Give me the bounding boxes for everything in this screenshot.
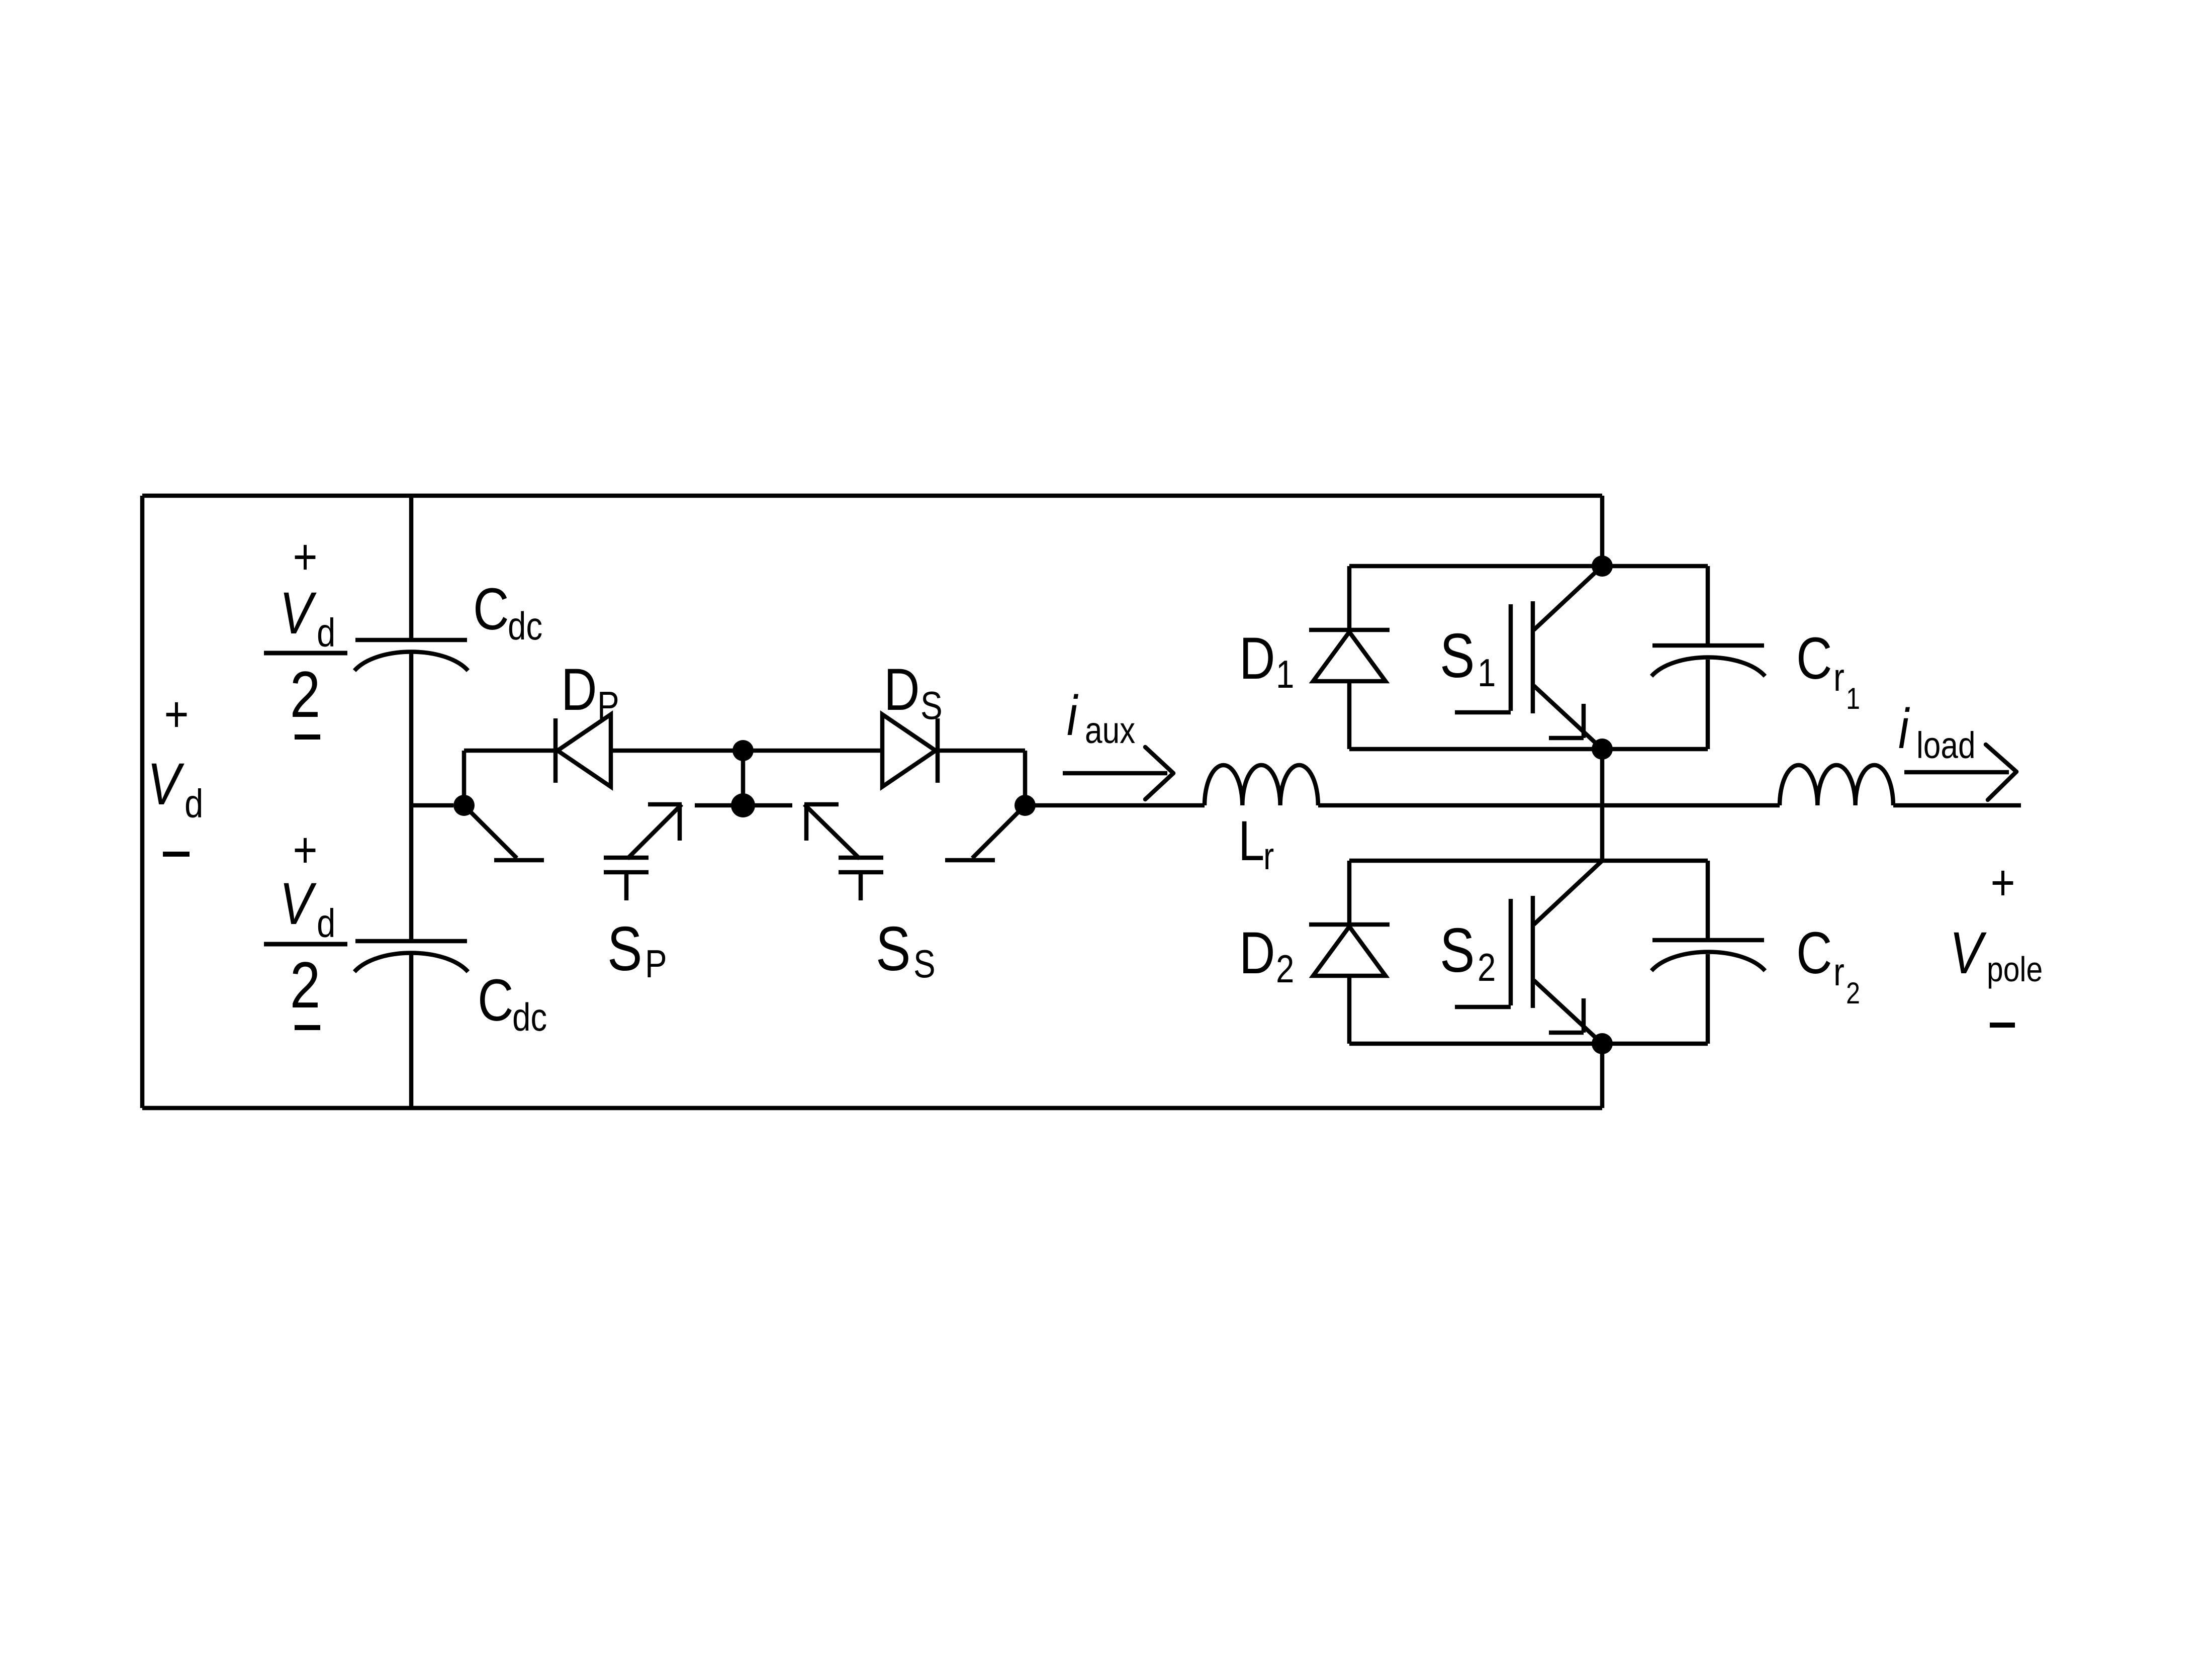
transistor S2 (collector)	[1534, 861, 1602, 925]
capacitor Cr1 (lower lead / box right edge)	[1706, 660, 1710, 749]
switch Ss (lower terminal stub)	[859, 872, 863, 900]
svg-text:C: C	[478, 967, 514, 1034]
svg-text:S: S	[913, 943, 936, 986]
svg-text:D: D	[884, 657, 920, 723]
node C (aux output junction)	[1015, 795, 1036, 816]
wire left vertical (Vd source branch)	[140, 496, 145, 1108]
svg-text:V: V	[280, 871, 317, 937]
svg-text:+: +	[164, 686, 189, 743]
svg-text:S: S	[920, 684, 943, 728]
wire top DC rail	[142, 494, 1602, 498]
label - (lower Vd/2)	[295, 1025, 320, 1030]
wire node B to node B'	[741, 751, 746, 805]
diode D2 (upper lead / box left edge)	[1347, 861, 1352, 925]
switch Sp (lower terminal stub)	[624, 872, 629, 900]
fraction bar (upper Vd/2)	[264, 651, 347, 656]
capacitor Cr2 (upper lead / box right edge)	[1706, 861, 1710, 940]
svg-text:2: 2	[1276, 948, 1294, 991]
node A (dc midpoint junction)	[453, 795, 475, 816]
inductor Lr	[1205, 765, 1318, 805]
diode Ds (cathode bar)	[936, 718, 940, 783]
svg-text:r: r	[1263, 835, 1274, 878]
svg-text:V: V	[1950, 920, 1987, 986]
diode D1 (cathode bar)	[1309, 628, 1390, 632]
svg-text:load: load	[1916, 725, 1976, 766]
capacitor Cr1	[1652, 643, 1764, 648]
capacitor Cdc (bottom)	[355, 939, 467, 944]
node: top rail / S1 collector junction	[1592, 556, 1613, 577]
svg-text:D: D	[561, 657, 597, 723]
transistor S2 (body bar)	[1531, 896, 1535, 1008]
svg-text:dc: dc	[512, 996, 547, 1040]
svg-text:+: +	[1990, 854, 2015, 911]
wire right vertical from top rail to S1 cell	[1600, 496, 1605, 566]
switch Ss (arrow blade)	[804, 804, 860, 859]
svg-text:dc: dc	[508, 605, 542, 649]
switch Ss (fixed contact bar)	[945, 858, 995, 863]
wire dc midpoint to node A	[411, 803, 453, 808]
label - (Vpole)	[1990, 1023, 2015, 1028]
transistor S2 (emitter arrow barbs)	[1582, 998, 1586, 1033]
fraction bar (lower Vd/2)	[264, 942, 347, 947]
capacitor Cr2 (lower lead / box right edge)	[1706, 954, 1710, 1044]
svg-text:i: i	[1898, 697, 1910, 760]
wire S1 emitter down through pole to S2 collector	[1600, 749, 1605, 861]
snubber cell box for S1 (bottom edge)	[1349, 747, 1708, 752]
svg-text:i: i	[1067, 684, 1079, 747]
wire right vertical from S2 cell to bottom rail	[1600, 1044, 1605, 1108]
switch Ss (arrowhead barbs)	[804, 802, 839, 807]
diode D1 (triangle, pointing up)	[1313, 632, 1386, 681]
capacitor Cr1 (upper lead / box right edge)	[1706, 566, 1710, 646]
wire node A up to diode row	[462, 751, 467, 805]
svg-text:d: d	[317, 610, 335, 655]
svg-text:2: 2	[1846, 976, 1860, 1010]
svg-text:2: 2	[290, 658, 321, 731]
label - (Vd source)	[163, 852, 190, 857]
wire node A to diode Dp	[464, 749, 556, 753]
switch Ss (lower contact bars)	[839, 856, 883, 860]
wire switch-pole bar through node B'	[695, 803, 792, 808]
diode D2 (cathode bar)	[1309, 923, 1390, 927]
transistor S1 (body bar)	[1531, 601, 1535, 713]
snubber cell box for S2 (top edge)	[1349, 859, 1708, 863]
wire load inductor to output	[1893, 803, 2021, 808]
svg-text:1: 1	[1478, 652, 1496, 695]
switch Ss (blade from node C)	[972, 811, 1019, 858]
transistor S2 (emitter)	[1534, 980, 1602, 1044]
svg-text:C: C	[473, 576, 509, 642]
capacitor Cr2	[1652, 938, 1764, 943]
svg-text:P: P	[645, 943, 667, 986]
diode D2 (lower lead / box left edge)	[1347, 976, 1352, 1044]
svg-text:d: d	[317, 900, 335, 946]
current arrow iaux (shaft)	[1063, 771, 1167, 776]
wire bottom DC rail	[142, 1106, 1602, 1111]
svg-text:d: d	[185, 781, 203, 826]
label - (upper Vd/2)	[295, 734, 320, 740]
svg-text:1: 1	[1846, 682, 1860, 715]
wire corner down to node C	[1023, 751, 1028, 805]
wire dc-link capacitor leg (lower segment)	[409, 954, 414, 1108]
snubber cell box for S2 (bottom edge)	[1349, 1042, 1708, 1046]
transistor S1 (gate lead)	[1455, 710, 1511, 715]
capacitor Cdc (top)	[355, 638, 467, 642]
svg-text:r: r	[1833, 951, 1845, 994]
svg-text:L: L	[1238, 809, 1264, 872]
wire node C to resonant inductor	[1025, 803, 1205, 808]
wire dc-link capacitor leg (upper segment)	[409, 496, 414, 640]
inductor (load)	[1780, 765, 1893, 805]
wire Ds to corner	[938, 749, 1025, 753]
node B (upper aux junction)	[732, 740, 754, 761]
svg-text:r: r	[1833, 656, 1845, 700]
transistor S1 (collector)	[1534, 566, 1602, 630]
wire Dp to node B	[611, 749, 882, 753]
snubber cell box for S1 (top edge)	[1349, 564, 1708, 569]
svg-text:P: P	[597, 684, 619, 728]
switch Sp (lower contact bars)	[604, 856, 649, 860]
svg-text:V: V	[280, 580, 317, 647]
svg-text:aux: aux	[1085, 710, 1135, 751]
wire pole bus (Lr to load inductor)	[1318, 803, 1780, 808]
transistor S1 (emitter)	[1534, 686, 1602, 749]
transistor S1 (gate bar)	[1509, 604, 1513, 711]
current arrow iload (head)	[1986, 745, 2016, 772]
diode D1 (upper lead / box left edge)	[1347, 566, 1352, 630]
svg-text:+: +	[293, 821, 317, 878]
switch Sp (blade from node A)	[470, 811, 517, 858]
svg-text:S: S	[1440, 915, 1474, 985]
switch Sp (arrow blade)	[627, 804, 682, 859]
diode Ds (triangle, pointing right)	[882, 714, 936, 787]
svg-text:C: C	[1796, 920, 1832, 986]
switch Sp (arrowhead barbs)	[648, 802, 682, 807]
svg-text:2: 2	[290, 949, 321, 1022]
transistor S1 (emitter arrow barbs)	[1582, 704, 1586, 738]
svg-text:C: C	[1796, 625, 1832, 692]
current arrow iaux (head)	[1145, 747, 1173, 773]
svg-text:1: 1	[1276, 653, 1294, 697]
svg-text:+: +	[293, 528, 317, 585]
svg-text:D: D	[1239, 625, 1275, 692]
switch Sp (fixed contact bar)	[494, 858, 544, 863]
svg-text:S: S	[1440, 621, 1474, 691]
node: S2 emitter / bottom junction	[1592, 1033, 1613, 1054]
svg-text:S: S	[876, 914, 910, 984]
node B' (lower aux junction)	[731, 793, 755, 817]
diode Dp (cathode bar)	[554, 718, 558, 783]
diode D2 (triangle, pointing up)	[1313, 927, 1386, 976]
transistor S2 (gate bar)	[1509, 899, 1513, 1005]
svg-text:pole: pole	[1987, 949, 2043, 989]
transistor S2 (gate lead)	[1455, 1005, 1511, 1009]
svg-text:V: V	[147, 751, 185, 817]
svg-text:D: D	[1239, 920, 1275, 986]
svg-text:2: 2	[1478, 946, 1496, 990]
wire dc-link capacitor leg (middle segment)	[409, 653, 414, 941]
svg-text:S: S	[607, 914, 642, 984]
current arrow iload (shaft)	[1904, 770, 2009, 775]
diode D1 (lower lead / box left edge)	[1347, 681, 1352, 749]
node: S1 emitter / pole junction	[1592, 739, 1613, 760]
diode Dp (triangle, pointing left)	[558, 714, 611, 787]
